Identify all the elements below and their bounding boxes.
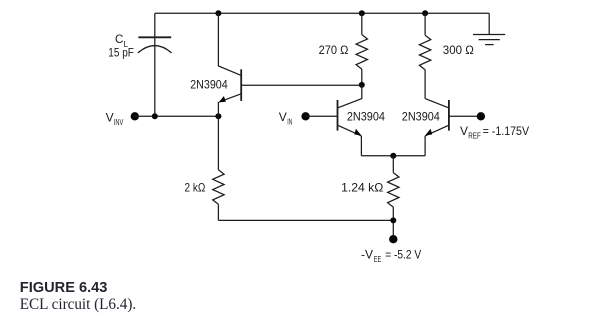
label VREF = -1.175V bbox=[460, 124, 529, 140]
svg-text:270 Ω: 270 Ω bbox=[319, 43, 349, 57]
node VIN terminal bbox=[301, 112, 309, 120]
wire Q1 emitter to node bbox=[217, 102, 219, 116]
svg-text:IN: IN bbox=[287, 118, 292, 127]
svg-text:C: C bbox=[115, 32, 124, 46]
label VIN bbox=[279, 110, 293, 126]
wire VINV row bbox=[135, 115, 219, 117]
junction common emitter bbox=[390, 153, 396, 159]
junction R1 bottom / Q1 base / Q2 collector bbox=[359, 82, 365, 88]
wire common emitter rail bbox=[361, 155, 425, 157]
svg-text:-V: -V bbox=[361, 248, 373, 262]
svg-text:REF: REF bbox=[468, 131, 481, 140]
svg-text:1.24 kΩ: 1.24 kΩ bbox=[341, 181, 383, 195]
resistor R3 2 kohm bbox=[213, 116, 224, 220]
resistor R4 1.24 kohm bbox=[388, 156, 399, 239]
resistor R2 300 ohm bbox=[419, 13, 430, 98]
ground bbox=[473, 13, 505, 44]
svg-text:INV: INV bbox=[114, 118, 124, 127]
svg-text:V: V bbox=[106, 111, 114, 125]
svg-text:EE: EE bbox=[374, 255, 382, 264]
svg-text:= -1.175V: = -1.175V bbox=[483, 124, 529, 138]
junction at cap / VINV bbox=[152, 113, 158, 119]
transistor Q2 2N3904 bbox=[338, 100, 362, 136]
capacitor CL curved plate bbox=[138, 46, 172, 53]
transistor Q1 2N3904 bbox=[219, 69, 242, 102]
svg-text:= -5.2 V: = -5.2 V bbox=[385, 248, 421, 262]
label CL bbox=[115, 32, 129, 49]
resistor R1 270 ohm bbox=[356, 13, 367, 85]
label -VEE = -5.2 V bbox=[361, 248, 421, 264]
junction at Q1 emitter node bbox=[215, 113, 221, 119]
svg-text:15 pF: 15 pF bbox=[108, 45, 134, 59]
svg-text:2N3904: 2N3904 bbox=[190, 78, 228, 92]
wire Q3 base lead bbox=[449, 115, 481, 117]
label VINV bbox=[106, 111, 124, 127]
wire Q3 collector bbox=[425, 99, 449, 108]
node VEE terminal bbox=[389, 235, 397, 243]
capacitor CL top plate bbox=[138, 36, 171, 38]
wire capacitor branch bbox=[154, 13, 156, 116]
junction top rail at 270 ohm bbox=[359, 10, 365, 16]
svg-text:300 Ω: 300 Ω bbox=[443, 43, 474, 57]
node VINV terminal bbox=[131, 112, 139, 120]
svg-text:2 kΩ: 2 kΩ bbox=[185, 181, 206, 195]
wire VIN to Q2 base bbox=[306, 115, 338, 117]
svg-text:FIGURE 6.43: FIGURE 6.43 bbox=[20, 280, 108, 296]
junction bottom row / R4 bbox=[390, 217, 396, 223]
svg-text:2N3904: 2N3904 bbox=[347, 109, 385, 123]
wire Q1 collector bbox=[218, 13, 241, 75]
wire top supply rail bbox=[155, 12, 489, 14]
node VREF terminal bbox=[477, 112, 485, 120]
wire Q2 emitter down bbox=[360, 136, 362, 156]
transistor Q3 2N3904 bbox=[425, 100, 449, 136]
wire Q1 base lead bbox=[241, 84, 362, 86]
svg-text:2N3904: 2N3904 bbox=[402, 109, 440, 123]
wire bottom row bbox=[218, 219, 393, 221]
junction top rail at 300 ohm bbox=[422, 10, 428, 16]
junction top rail at Q1 collector bbox=[215, 10, 221, 16]
svg-text:V: V bbox=[460, 124, 468, 138]
svg-text:V: V bbox=[279, 110, 287, 124]
wire Q3 emitter down bbox=[424, 136, 426, 156]
wire Q2 collector bbox=[338, 85, 362, 108]
svg-text:ECL circuit (L6.4).: ECL circuit (L6.4). bbox=[20, 295, 136, 313]
